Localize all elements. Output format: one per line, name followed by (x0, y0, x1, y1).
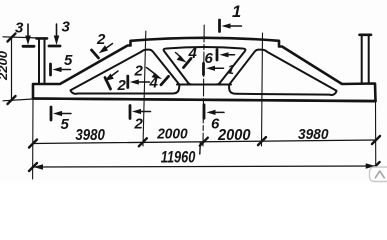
2200 vertical dimension (3, 34, 36, 105)
dimension line 3980/2000/2000/3980 (33, 140, 376, 144)
svg-text:2200: 2200 (0, 51, 10, 81)
section marker 1 (220, 20, 242, 32)
bottom chord line under center block (177, 84, 231, 86)
center axis line (203, 25, 204, 146)
section marker 2 on diagonal (lower) (105, 71, 119, 89)
section marker 4 lower (147, 68, 169, 85)
section marker 6 top (217, 50, 235, 61)
svg-text:2: 2 (134, 116, 144, 133)
watermark badge corner (370, 167, 387, 182)
svg-text:3: 3 (15, 20, 24, 37)
section marker 2 mid (128, 76, 150, 88)
svg-text:3980: 3980 (75, 127, 105, 144)
svg-text:2: 2 (134, 63, 144, 80)
svg-text:3980: 3980 (298, 126, 329, 143)
overall dimension line 11960 (33, 166, 376, 167)
right anchor post (360, 35, 372, 83)
section marker 5 bottom (51, 107, 71, 120)
svg-text:11960: 11960 (161, 149, 196, 167)
right web opening (229, 50, 337, 95)
beam outer outline (33, 38, 376, 101)
section marker 2 on slope (92, 44, 113, 59)
extension line at 3980 (143, 31, 146, 146)
section marker 5 top (51, 64, 71, 75)
svg-text:5: 5 (64, 52, 73, 69)
svg-text:4: 4 (188, 45, 198, 62)
svg-text:3: 3 (62, 19, 71, 36)
svg-text:2000: 2000 (217, 127, 251, 144)
svg-text:1: 1 (226, 61, 235, 77)
slab bottom edge (33, 99, 376, 102)
left anchor post (37, 38, 48, 84)
section marker 3 left (23, 24, 34, 46)
section marker 6 bottom (204, 105, 224, 118)
svg-text:2: 2 (117, 77, 127, 94)
section marker 3 right (49, 24, 60, 46)
extension line left end (32, 99, 34, 180)
dim ticks (29, 136, 380, 148)
svg-text:5: 5 (61, 116, 70, 133)
svg-text:6: 6 (205, 50, 214, 67)
extension line at 2000 right (262, 33, 263, 146)
section marker 2 bottom (130, 106, 151, 119)
section marker 4 upper (176, 53, 192, 68)
extension line right end (375, 101, 377, 181)
svg-text:2: 2 (96, 31, 106, 48)
svg-text:4: 4 (149, 75, 159, 92)
left web opening (71, 50, 180, 94)
svg-text:1: 1 (232, 3, 241, 21)
svg-text:2000: 2000 (156, 125, 188, 142)
node marker 1 mid (204, 63, 224, 74)
center web opening (164, 47, 246, 84)
